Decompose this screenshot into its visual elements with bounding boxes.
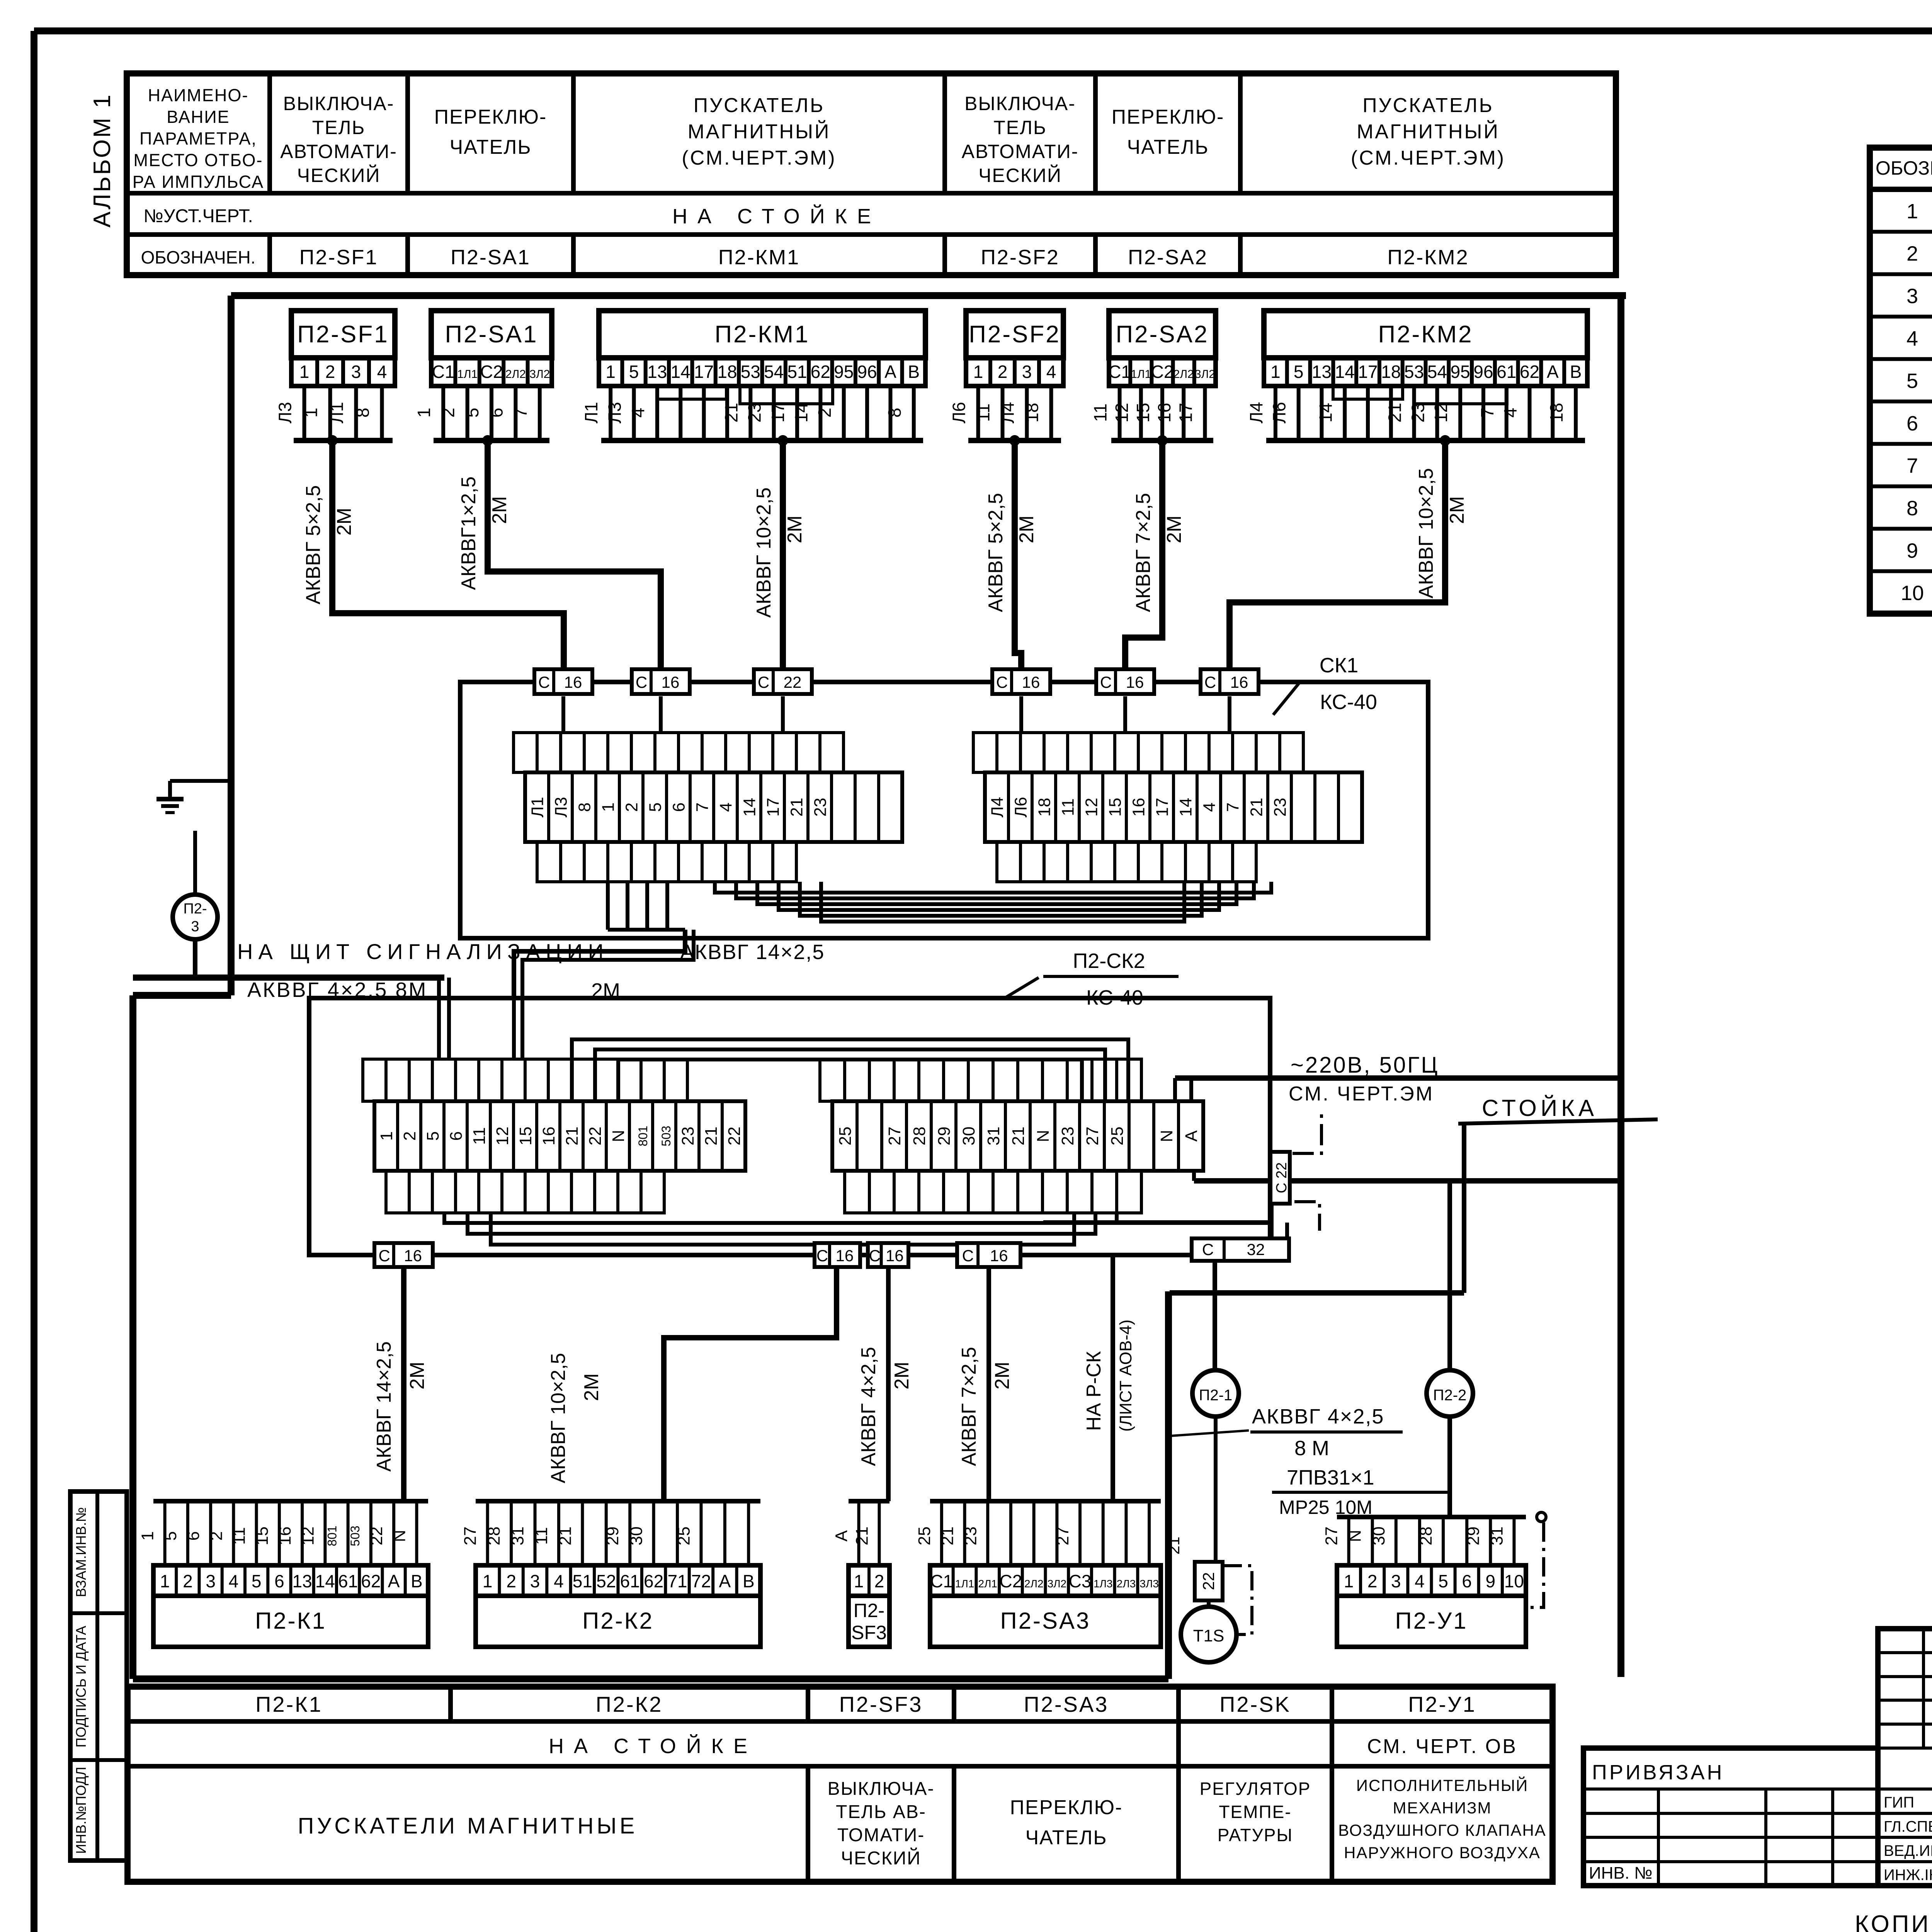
svg-text:1: 1: [1344, 1571, 1354, 1591]
svg-text:25: 25: [836, 1127, 855, 1146]
svg-text:ПУСКАТЕЛИ МАГНИТНЫЕ: ПУСКАТЕЛИ МАГНИТНЫЕ: [298, 1813, 638, 1838]
svg-text:РА ИМПУЛЬСА: РА ИМПУЛЬСА: [133, 172, 264, 192]
svg-text:17: 17: [1358, 362, 1378, 382]
svg-text:12: 12: [1082, 798, 1101, 817]
svg-text:21: 21: [702, 1127, 721, 1146]
svg-text:АЛЬБОМ 1: АЛЬБОМ 1: [89, 93, 116, 228]
svg-text:8: 8: [884, 408, 905, 418]
svg-text:(СМ.ЧЕРТ.ЭМ): (СМ.ЧЕРТ.ЭМ): [682, 147, 836, 169]
svg-text:30: 30: [1369, 1527, 1388, 1546]
svg-text:2М: 2М: [1163, 515, 1185, 543]
svg-text:ГЛ.СПЕЦ.: ГЛ.СПЕЦ.: [1884, 1818, 1932, 1835]
svg-text:29: 29: [935, 1127, 954, 1146]
svg-text:2М: 2М: [891, 1362, 913, 1389]
svg-text:2: 2: [506, 1571, 516, 1591]
svg-text:ТЕМПЕ-: ТЕМПЕ-: [1219, 1802, 1291, 1822]
svg-text:П2-SK: П2-SK: [1219, 1692, 1291, 1716]
svg-text:4: 4: [229, 1571, 239, 1591]
svg-text:11: 11: [230, 1527, 249, 1545]
svg-text:ПРИВЯЗАН: ПРИВЯЗАН: [1592, 1761, 1725, 1784]
svg-text:4: 4: [628, 408, 648, 418]
svg-text:ПУСКАТЕЛЬ: ПУСКАТЕЛЬ: [694, 94, 825, 117]
svg-text:А: А: [1182, 1130, 1201, 1142]
svg-text:23: 23: [1271, 798, 1290, 817]
svg-text:ВЫКЛЮЧА-: ВЫКЛЮЧА-: [283, 93, 395, 114]
svg-text:15: 15: [516, 1127, 535, 1146]
svg-text:МАГНИТНЫЙ: МАГНИТНЫЙ: [1357, 120, 1500, 143]
svg-text:21: 21: [787, 798, 806, 817]
svg-text:23: 23: [1408, 403, 1428, 422]
svg-text:П2-: П2-: [854, 1600, 884, 1621]
svg-text:2: 2: [622, 803, 641, 812]
svg-text:12: 12: [298, 1527, 317, 1546]
svg-text:П2-СК2: П2-СК2: [1073, 949, 1145, 973]
svg-text:П2-SF3: П2-SF3: [839, 1692, 923, 1716]
svg-text:П2-1: П2-1: [1199, 1387, 1233, 1404]
svg-text:С1: С1: [930, 1571, 953, 1591]
svg-text:ВЕД.ИНЖ: ВЕД.ИНЖ: [1884, 1842, 1932, 1859]
svg-text:5: 5: [1906, 369, 1918, 393]
svg-text:54: 54: [1427, 362, 1447, 382]
svg-text:3: 3: [1391, 1571, 1401, 1591]
svg-text:13: 13: [647, 362, 667, 382]
svg-text:АКВВГ 10×2,5: АКВВГ 10×2,5: [753, 487, 775, 617]
svg-text:П2-SA3: П2-SA3: [1000, 1608, 1091, 1634]
svg-text:51: 51: [573, 1571, 592, 1591]
svg-text:П2-КМ1: П2-КМ1: [715, 321, 810, 348]
svg-text:51: 51: [787, 362, 807, 382]
svg-text:НА СТОЙКЕ: НА СТОЙКЕ: [672, 204, 881, 228]
svg-text:Л3: Л3: [552, 797, 571, 817]
svg-text:27: 27: [1053, 1527, 1072, 1546]
svg-text:П2-К2: П2-К2: [582, 1608, 654, 1634]
svg-text:21: 21: [1385, 403, 1405, 422]
svg-text:3: 3: [206, 1571, 216, 1591]
svg-text:17: 17: [1153, 798, 1172, 817]
svg-text:ИНВ.№ПОДЛ: ИНВ.№ПОДЛ: [73, 1767, 89, 1854]
svg-text:11: 11: [973, 403, 993, 422]
svg-text:N: N: [390, 1530, 409, 1542]
svg-text:1: 1: [160, 1571, 170, 1591]
svg-text:N: N: [1034, 1130, 1053, 1142]
svg-text:С2: С2: [1000, 1571, 1022, 1591]
svg-text:31: 31: [984, 1127, 1003, 1146]
svg-text:1Л1: 1Л1: [955, 1578, 975, 1590]
svg-text:П2-У1: П2-У1: [1395, 1608, 1468, 1634]
svg-text:С: С: [758, 673, 769, 691]
svg-text:11: 11: [1059, 798, 1078, 816]
svg-text:4: 4: [377, 362, 387, 382]
svg-text:П2-SA1: П2-SA1: [451, 246, 531, 269]
svg-text:15: 15: [1133, 403, 1153, 422]
svg-text:27: 27: [1322, 1527, 1341, 1546]
svg-text:2: 2: [874, 1571, 884, 1591]
svg-text:МЕСТО ОТБО-: МЕСТО ОТБО-: [134, 150, 263, 170]
svg-text:N: N: [609, 1130, 628, 1142]
svg-text:96: 96: [1473, 362, 1493, 382]
svg-text:С: С: [378, 1247, 390, 1265]
svg-text:2: 2: [400, 1131, 419, 1141]
svg-text:АКВВГ 5×2,5: АКВВГ 5×2,5: [302, 485, 325, 605]
svg-text:3Л2: 3Л2: [1048, 1578, 1067, 1590]
svg-text:503: 503: [348, 1526, 362, 1546]
svg-text:4: 4: [1906, 327, 1918, 350]
svg-text:3Л3: 3Л3: [1139, 1578, 1159, 1590]
svg-text:21: 21: [938, 1527, 957, 1546]
svg-text:16: 16: [1154, 403, 1174, 422]
svg-text:ПЕРЕКЛЮ-: ПЕРЕКЛЮ-: [434, 106, 547, 128]
svg-text:В: В: [908, 362, 920, 382]
svg-text:ЧЕСКИЙ: ЧЕСКИЙ: [978, 164, 1062, 186]
svg-text:СК1: СК1: [1320, 654, 1359, 677]
svg-text:7: 7: [510, 408, 531, 418]
svg-text:ТЕЛЬ: ТЕЛЬ: [993, 117, 1047, 138]
svg-text:71: 71: [667, 1571, 687, 1591]
svg-text:8: 8: [353, 408, 373, 418]
svg-text:5: 5: [1294, 362, 1304, 382]
svg-text:№УСТ.ЧЕРТ.: №УСТ.ЧЕРТ.: [143, 206, 253, 226]
svg-text:28: 28: [910, 1127, 929, 1146]
svg-text:1: 1: [483, 1571, 493, 1591]
svg-text:17: 17: [764, 798, 783, 817]
svg-text:25: 25: [1108, 1127, 1127, 1146]
svg-text:2: 2: [815, 408, 835, 418]
svg-text:1Л1: 1Л1: [457, 368, 478, 381]
svg-text:3: 3: [351, 362, 361, 382]
svg-text:13: 13: [293, 1571, 312, 1591]
svg-text:16: 16: [1022, 673, 1040, 691]
svg-text:АКВВГ 7×2,5: АКВВГ 7×2,5: [1132, 493, 1155, 612]
svg-text:5: 5: [462, 408, 482, 418]
svg-text:А: А: [884, 362, 896, 382]
svg-text:С: С: [816, 1247, 828, 1265]
svg-text:ТЕЛЬ АВ-: ТЕЛЬ АВ-: [836, 1802, 926, 1822]
svg-text:21: 21: [556, 1527, 575, 1546]
svg-text:16: 16: [662, 673, 680, 691]
svg-text:6: 6: [184, 1531, 203, 1541]
svg-text:22: 22: [367, 1527, 386, 1546]
svg-text:ВЫКЛЮЧА-: ВЫКЛЮЧА-: [964, 93, 1076, 114]
svg-text:29: 29: [603, 1527, 622, 1546]
svg-text:22: 22: [586, 1127, 605, 1146]
svg-text:ВОЗДУШНОГО КЛАПАНА: ВОЗДУШНОГО КЛАПАНА: [1338, 1821, 1546, 1839]
svg-text:14: 14: [1335, 362, 1355, 382]
svg-text:ЧАТЕЛЬ: ЧАТЕЛЬ: [1127, 136, 1209, 158]
svg-text:12: 12: [1112, 403, 1132, 422]
svg-text:АКВВГ1×2,5: АКВВГ1×2,5: [457, 476, 480, 590]
svg-text:С: С: [996, 673, 1008, 691]
svg-text:Л3: Л3: [605, 402, 625, 423]
svg-text:Л4: Л4: [1246, 402, 1266, 423]
svg-text:31: 31: [509, 1527, 527, 1546]
svg-text:2Л2: 2Л2: [505, 368, 526, 381]
svg-text:ОБОЗН.: ОБОЗН.: [1876, 157, 1932, 179]
svg-text:КОПИРОВАЛ ЗАВЬЯЛОВА ФОРМАТ А2: КОПИРОВАЛ ЗАВЬЯЛОВА ФОРМАТ А2: [1855, 1911, 1932, 1932]
svg-text:31: 31: [1487, 1527, 1506, 1546]
svg-text:П2-SA2: П2-SA2: [1116, 321, 1209, 348]
svg-text:П2-SF2: П2-SF2: [981, 246, 1060, 269]
svg-text:ОБОЗНАЧЕН.: ОБОЗНАЧЕН.: [141, 247, 256, 267]
svg-text:С: С: [1204, 673, 1216, 691]
svg-text:12: 12: [1431, 403, 1451, 422]
svg-text:14: 14: [315, 1571, 335, 1591]
svg-text:23: 23: [679, 1127, 697, 1146]
svg-text:10: 10: [1901, 582, 1924, 605]
svg-text:ИНВ. №: ИНВ. №: [1589, 1864, 1652, 1883]
svg-text:2М: 2М: [488, 496, 511, 524]
svg-text:ПЕРЕКЛЮ-: ПЕРЕКЛЮ-: [1112, 106, 1225, 128]
svg-text:П2-SF2: П2-SF2: [969, 321, 1060, 348]
svg-text:2: 2: [325, 362, 335, 382]
svg-text:27: 27: [885, 1127, 904, 1146]
svg-text:21: 21: [1165, 1537, 1183, 1555]
svg-text:ТЕЛЬ: ТЕЛЬ: [312, 117, 366, 138]
svg-text:9: 9: [1906, 539, 1918, 562]
svg-text:МЕХАНИЗМ: МЕХАНИЗМ: [1393, 1799, 1492, 1817]
svg-text:(ЛИСТ АОВ-4): (ЛИСТ АОВ-4): [1116, 1320, 1135, 1432]
svg-text:61: 61: [1497, 362, 1516, 382]
svg-text:Л1: Л1: [581, 402, 601, 423]
svg-text:16: 16: [1129, 798, 1148, 817]
svg-text:А: А: [1547, 362, 1559, 382]
svg-text:7ПВ31×1: 7ПВ31×1: [1287, 1466, 1374, 1489]
svg-text:23: 23: [811, 798, 830, 817]
svg-text:N: N: [1346, 1530, 1365, 1542]
svg-text:1: 1: [605, 362, 616, 382]
svg-text:3Л2: 3Л2: [529, 368, 550, 381]
svg-text:АКВВГ 10×2,5: АКВВГ 10×2,5: [1415, 468, 1437, 598]
svg-text:НАРУЖНОГО ВОЗДУХА: НАРУЖНОГО ВОЗДУХА: [1344, 1844, 1541, 1862]
svg-text:95: 95: [834, 362, 854, 382]
svg-text:2: 2: [438, 408, 458, 418]
svg-text:96: 96: [857, 362, 877, 382]
svg-text:С: С: [1100, 673, 1112, 691]
svg-text:13: 13: [1312, 362, 1332, 382]
svg-text:2М: 2М: [580, 1373, 603, 1401]
svg-text:21: 21: [1247, 798, 1266, 817]
svg-text:6: 6: [274, 1571, 284, 1591]
svg-text:2Л2: 2Л2: [1024, 1578, 1044, 1590]
svg-text:5: 5: [252, 1571, 262, 1591]
svg-text:С: С: [636, 673, 647, 691]
svg-text:4: 4: [1200, 803, 1219, 812]
svg-text:С: С: [1202, 1240, 1214, 1259]
svg-text:12: 12: [493, 1127, 512, 1146]
svg-text:6: 6: [1906, 412, 1918, 435]
svg-text:АКВВГ 5×2,5: АКВВГ 5×2,5: [985, 493, 1007, 612]
svg-text:SF3: SF3: [851, 1622, 887, 1643]
svg-text:52: 52: [596, 1571, 616, 1591]
svg-text:4: 4: [554, 1571, 564, 1591]
svg-text:2: 2: [1367, 1571, 1378, 1591]
svg-text:НА ЩИТ СИГНАЛИЗАЦИИ: НА ЩИТ СИГНАЛИЗАЦИИ: [237, 939, 609, 964]
svg-text:С2: С2: [480, 362, 503, 382]
svg-text:25: 25: [674, 1527, 693, 1546]
svg-text:С1: С1: [1108, 362, 1131, 382]
svg-text:1: 1: [599, 803, 618, 812]
svg-text:В: В: [743, 1571, 755, 1591]
svg-text:ИСПОЛНИТЕЛЬНЫЙ: ИСПОЛНИТЕЛЬНЫЙ: [1356, 1776, 1528, 1794]
svg-text:АКВВГ 4×2,5: АКВВГ 4×2,5: [857, 1347, 880, 1466]
svg-text:2: 2: [998, 362, 1008, 382]
svg-text:62: 62: [644, 1571, 663, 1591]
svg-text:5: 5: [161, 1531, 180, 1541]
svg-text:П2-КМ2: П2-КМ2: [1378, 321, 1473, 348]
svg-text:72: 72: [691, 1571, 711, 1591]
svg-text:T1S: T1S: [1193, 1626, 1225, 1645]
svg-text:503: 503: [659, 1126, 673, 1146]
svg-text:8 М: 8 М: [1294, 1437, 1329, 1460]
svg-text:П2-К1: П2-К1: [255, 1608, 327, 1634]
svg-text:16: 16: [836, 1247, 854, 1265]
svg-text:4: 4: [1415, 1571, 1425, 1591]
svg-text:5: 5: [423, 1131, 442, 1141]
svg-text:4: 4: [1046, 362, 1056, 382]
svg-text:А: А: [832, 1530, 851, 1542]
svg-text:4: 4: [717, 803, 736, 812]
svg-text:Л6: Л6: [1012, 797, 1031, 817]
svg-text:8: 8: [1906, 497, 1918, 520]
svg-text:14: 14: [671, 362, 690, 382]
svg-text:2: 2: [183, 1571, 193, 1591]
svg-text:17: 17: [694, 362, 714, 382]
svg-text:11: 11: [470, 1127, 489, 1145]
svg-text:22: 22: [725, 1127, 744, 1146]
svg-text:С: С: [962, 1247, 974, 1265]
svg-text:Л6: Л6: [1269, 402, 1289, 423]
svg-text:РЕГУЛЯТОР: РЕГУЛЯТОР: [1200, 1779, 1311, 1799]
svg-text:7: 7: [1906, 454, 1918, 478]
svg-text:16: 16: [539, 1127, 558, 1146]
svg-text:30: 30: [627, 1527, 646, 1546]
svg-text:АВТОМАТИ-: АВТОМАТИ-: [962, 141, 1079, 162]
svg-text:29: 29: [1464, 1527, 1483, 1546]
svg-text:~220В, 50ГЦ: ~220В, 50ГЦ: [1291, 1053, 1439, 1078]
svg-text:25: 25: [915, 1527, 934, 1546]
svg-text:С3: С3: [1069, 1571, 1092, 1591]
svg-text:П2-2: П2-2: [1433, 1387, 1467, 1404]
svg-text:21: 21: [853, 1527, 872, 1546]
svg-text:7: 7: [1477, 408, 1497, 418]
svg-text:21: 21: [1009, 1127, 1028, 1146]
svg-text:61: 61: [620, 1571, 640, 1591]
svg-text:21: 21: [563, 1127, 582, 1146]
svg-text:П2-КМ1: П2-КМ1: [718, 246, 800, 269]
svg-text:АКВВГ 14×2,5: АКВВГ 14×2,5: [680, 940, 825, 964]
svg-text:ИНЖ.IКАТ: ИНЖ.IКАТ: [1884, 1867, 1932, 1884]
svg-text:17: 17: [768, 403, 788, 422]
svg-text:30: 30: [959, 1127, 978, 1146]
svg-text:14: 14: [791, 403, 811, 422]
svg-text:ЧЕСКИЙ: ЧЕСКИЙ: [297, 164, 381, 186]
svg-text:28: 28: [1417, 1527, 1435, 1546]
svg-text:10: 10: [1504, 1571, 1524, 1591]
svg-text:ЧАТЕЛЬ: ЧАТЕЛЬ: [450, 136, 532, 158]
svg-text:П2-SA2: П2-SA2: [1128, 246, 1208, 269]
svg-text:ПОДПИСЬ И ДАТА: ПОДПИСЬ И ДАТА: [73, 1626, 89, 1747]
svg-text:С 22: С 22: [1274, 1162, 1290, 1193]
svg-text:62: 62: [361, 1571, 381, 1591]
svg-text:18: 18: [1022, 403, 1042, 422]
svg-text:МАГНИТНЫЙ: МАГНИТНЫЙ: [688, 120, 831, 143]
svg-text:2М: 2М: [784, 515, 806, 543]
svg-text:1: 1: [414, 408, 434, 418]
svg-text:23: 23: [961, 1527, 980, 1546]
svg-text:16: 16: [886, 1247, 904, 1265]
svg-text:ЧЕСКИЙ: ЧЕСКИЙ: [841, 1847, 921, 1869]
svg-text:18: 18: [717, 362, 737, 382]
svg-text:5: 5: [629, 362, 639, 382]
svg-text:ВЫКЛЮЧА-: ВЫКЛЮЧА-: [828, 1779, 935, 1799]
svg-text:ЧАТЕЛЬ: ЧАТЕЛЬ: [1026, 1827, 1107, 1849]
svg-text:8: 8: [575, 803, 594, 812]
svg-text:П2-К2: П2-К2: [596, 1692, 663, 1716]
svg-text:16: 16: [564, 673, 582, 691]
svg-text:5: 5: [1438, 1571, 1448, 1591]
svg-text:18: 18: [1035, 798, 1054, 817]
svg-text:2Л2: 2Л2: [1173, 368, 1194, 381]
svg-text:53: 53: [1404, 362, 1424, 382]
svg-text:22: 22: [1199, 1572, 1218, 1590]
svg-text:Л1: Л1: [528, 797, 547, 817]
svg-text:3: 3: [1022, 362, 1032, 382]
svg-text:23: 23: [745, 403, 765, 422]
svg-text:17: 17: [1175, 403, 1196, 422]
svg-text:П2-К1: П2-К1: [255, 1692, 323, 1716]
svg-text:А: А: [719, 1571, 731, 1591]
svg-text:3Л2: 3Л2: [1195, 368, 1215, 381]
svg-text:1: 1: [301, 408, 321, 418]
svg-text:1: 1: [973, 362, 983, 382]
svg-text:ВЗАМ.ИНВ.№: ВЗАМ.ИНВ.№: [73, 1507, 89, 1597]
svg-text:2М: 2М: [333, 508, 355, 536]
svg-text:27: 27: [1083, 1127, 1102, 1146]
svg-text:6: 6: [1462, 1571, 1472, 1591]
svg-text:(СМ.ЧЕРТ.ЭМ): (СМ.ЧЕРТ.ЭМ): [1351, 147, 1505, 169]
svg-text:НА Р-СК: НА Р-СК: [1083, 1351, 1105, 1431]
svg-text:32: 32: [1247, 1240, 1265, 1259]
svg-text:801: 801: [325, 1526, 339, 1546]
svg-text:53: 53: [741, 362, 760, 382]
svg-text:1: 1: [138, 1531, 157, 1541]
svg-text:3: 3: [1906, 285, 1918, 308]
svg-text:2Л1: 2Л1: [978, 1578, 997, 1590]
svg-text:2Л3: 2Л3: [1117, 1578, 1136, 1590]
svg-text:П2-SA3: П2-SA3: [1024, 1692, 1109, 1716]
svg-text:16: 16: [1230, 673, 1248, 691]
svg-text:1: 1: [299, 362, 310, 382]
svg-text:2М: 2М: [1015, 515, 1038, 543]
svg-text:3: 3: [530, 1571, 540, 1591]
svg-text:2: 2: [1906, 242, 1918, 265]
svg-text:11: 11: [532, 1527, 551, 1545]
svg-text:АКВВГ 4×2,5: АКВВГ 4×2,5: [1252, 1405, 1384, 1428]
svg-text:П2-У1: П2-У1: [1408, 1692, 1476, 1716]
svg-text:2М: 2М: [1446, 496, 1468, 524]
svg-text:6: 6: [670, 803, 689, 812]
svg-text:АКВВГ 7×2,5: АКВВГ 7×2,5: [958, 1347, 980, 1466]
svg-text:16: 16: [990, 1247, 1008, 1265]
svg-text:1Л3: 1Л3: [1094, 1578, 1113, 1590]
svg-text:11: 11: [1090, 403, 1111, 422]
svg-text:ТОМАТИ-: ТОМАТИ-: [837, 1825, 925, 1845]
svg-text:С: С: [869, 1247, 881, 1265]
svg-text:ПУСКАТЕЛЬ: ПУСКАТЕЛЬ: [1362, 94, 1494, 117]
svg-text:801: 801: [636, 1126, 650, 1146]
svg-text:62: 62: [1520, 362, 1539, 382]
svg-text:Л3: Л3: [275, 402, 295, 423]
svg-text:ПЕРЕКЛЮ-: ПЕРЕКЛЮ-: [1010, 1796, 1123, 1819]
